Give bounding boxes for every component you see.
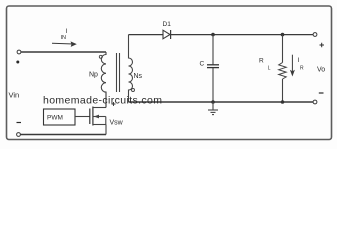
svg-text:L: L bbox=[268, 66, 271, 72]
svg-text:I: I bbox=[66, 28, 68, 35]
svg-text:IN: IN bbox=[61, 35, 67, 41]
svg-text:R: R bbox=[259, 58, 264, 65]
svg-text:Vsw: Vsw bbox=[110, 120, 124, 127]
svg-text:C: C bbox=[200, 61, 205, 68]
svg-text:homemade-circuits.com: homemade-circuits.com bbox=[43, 95, 162, 107]
svg-text:Vin: Vin bbox=[9, 91, 20, 100]
svg-text:D1: D1 bbox=[163, 21, 172, 28]
svg-text:PWM: PWM bbox=[47, 115, 63, 122]
svg-text:Np: Np bbox=[89, 72, 98, 79]
svg-text:I: I bbox=[298, 57, 300, 64]
svg-text:R: R bbox=[300, 66, 304, 72]
svg-text:Vo: Vo bbox=[317, 67, 325, 74]
svg-text:Ns: Ns bbox=[134, 73, 143, 80]
